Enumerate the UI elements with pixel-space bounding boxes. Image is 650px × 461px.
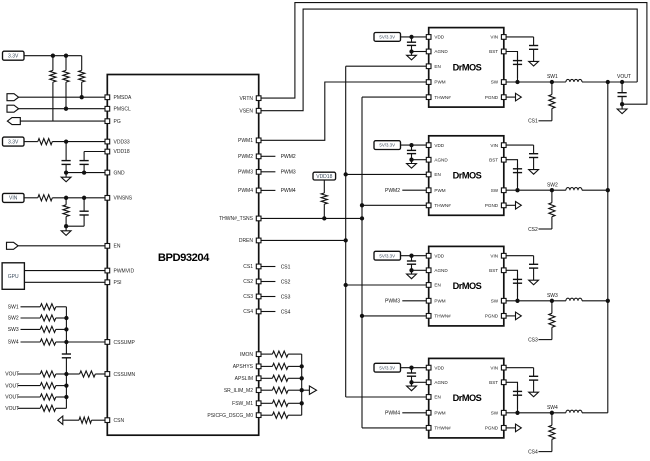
THWN bus vertical (all phases) [361,97,363,428]
arrow PGND phase 1 (off-sheet) [506,96,515,98]
pin BST DrMOS phase 3 [501,268,506,273]
pin CS3 of U1 [256,294,261,299]
ground symbol AGND phase 1 [411,52,413,56]
ground symbol VIN cap phase 1 [533,60,535,62]
wire THWN#_TSNS to bus [261,217,362,219]
svg-text:VDD: VDD [434,35,444,40]
svg-text:PWM3: PWM3 [281,170,296,176]
svg-text:AGND: AGND [434,380,448,385]
svg-text:SW: SW [491,188,499,193]
junction dot R6 bottom [64,224,68,228]
junction dot VOUT bus phase 3 [606,299,610,303]
pin VDD33 of U1 [105,139,110,144]
wire R6/C3 bottoms [66,225,84,227]
junction dot BST/SW phase 1 [515,80,519,84]
power net label 3.3V (pull-up rail) [3,51,25,60]
net label stub CS2 [261,281,275,283]
wire BST phase 3 [506,270,517,301]
config resistor bus vertical [301,354,303,415]
svg-text:CS4: CS4 [243,309,253,315]
svg-text:PGND: PGND [485,426,499,431]
pin PWM1 of U1 [256,138,261,143]
wire R13 to CSSUMN bus [56,396,67,398]
pin VIN DrMOS phase 4 [501,365,506,370]
pin PWM2 of U1 [256,154,261,159]
power net label 3.3V (VDD33 supply) [3,137,25,146]
pin EN of U1 [105,244,110,249]
capacitor C VDD phase 1 [411,37,413,42]
wire THWN# phase 2 [362,204,426,206]
wire SW4 to R10 [21,341,41,343]
resistor R15 series CSSUMN [66,373,79,375]
junction dot SW node phase 3 [550,299,554,303]
wire AGND phase 4 [412,381,427,383]
svg-text:SW1: SW1 [547,74,558,80]
svg-text:EN: EN [434,172,440,177]
pin SW DrMOS phase 2 [501,188,506,193]
svg-text:EN: EN [434,283,440,288]
svg-text:PWM: PWM [434,188,445,193]
resistor R4 series VDD33 [38,139,53,145]
svg-text:VIN: VIN [9,196,18,202]
pin PGND DrMOS phase 3 [501,314,506,319]
svg-text:THWN#: THWN# [434,426,451,431]
pin CSN of U1 [105,418,110,423]
wire PMSDA [19,96,105,98]
svg-text:CSN: CSN [114,418,125,424]
wire VIN phase 3 [506,255,533,257]
pin VDD DrMOS phase 4 [426,365,431,370]
junction dot VOUT cap bottom / VRTN [620,102,624,106]
pin VRTN of U1 [256,96,261,101]
svg-text:DrMOS: DrMOS [453,393,482,403]
ground symbol AGND phase 3 [411,270,413,274]
junction dot VDD33/C1 [64,139,68,143]
svg-text:PSICFG_DSCG_M0: PSICFG_DSCG_M0 [207,413,253,419]
pin APSHYS of U1 [256,364,261,369]
junction dot VDD cap phase 3 [409,254,413,258]
pin THWN# DrMOS phase 4 [426,426,431,431]
svg-text:SW4: SW4 [8,340,19,346]
wire VOUT to R13 [18,396,40,398]
svg-text:PWM3: PWM3 [385,299,400,305]
svg-text:VRTN: VRTN [239,96,253,102]
pin CSSUMP of U1 [105,340,110,345]
junction dot EN bus phase 3 [344,283,348,287]
capacitor C VIN phase 3 [533,256,535,265]
pin SW DrMOS phase 4 [501,410,506,415]
pin AGND DrMOS phase 2 [426,157,431,162]
wire BST phase 4 [506,382,517,413]
svg-text:SW4: SW4 [547,405,558,411]
svg-text:SR_ILIM_M2: SR_ILIM_M2 [224,388,253,394]
wire AGND phase 3 [412,269,427,271]
svg-text:5V/3.3V: 5V/3.3V [379,365,395,370]
junction dot VOUT cap top [620,80,624,84]
pin AGND DrMOS phase 4 [426,380,431,385]
svg-text:PG: PG [114,119,121,125]
wire CS3 stub phase 3 [539,339,552,341]
ground symbol (VINSNS filter) [65,226,67,231]
wire VRTN remote sense return [261,3,647,105]
junction dot VDD cap phase 2 [409,143,413,147]
pin IMON of U1 [256,352,261,357]
ground symbol (VDD33 decoupling) [65,173,67,178]
capacitor C VDD phase 3 [411,256,413,261]
power net label VIN [3,193,25,202]
svg-text:AGND: AGND [434,49,448,54]
svg-text:VOUT: VOUT [5,395,19,401]
svg-text:CS2: CS2 [528,227,538,233]
capacitor C BST phase 2 [517,164,519,169]
svg-text:VOUT: VOUT [5,406,19,412]
svg-text:PMSCL: PMSCL [114,107,131,113]
junction dot EN bus phase 2 [344,172,348,176]
junction dot SW node phase 1 [550,80,554,84]
junction dot BST/SW phase 3 [515,299,519,303]
resistor R CS sense phase 4 [551,413,553,426]
wire SW rail phase 1 [506,81,566,83]
pin PWM DrMOS phase 3 [426,298,431,303]
resistor R20 config [261,377,272,379]
pin BST DrMOS phase 2 [501,157,506,162]
CSSUMP bus vertical [65,307,67,352]
pin VSEN of U1 [256,108,261,113]
net label box VDD18 (THWN pull-up) [313,172,336,180]
capacitor C VIN phase 2 [533,145,535,154]
DrMOS U3 phase 2 body [429,136,504,216]
svg-text:APSLIM: APSLIM [235,376,253,382]
pin THWN# DrMOS phase 1 [426,95,431,100]
junction dot DREN/EN bus [344,238,348,242]
capacitor C VOUT output [621,82,623,93]
svg-text:BPD93204: BPD93204 [158,252,210,264]
controller IC U1 BPD93204 body [107,75,258,436]
wire VOUT to R14 [18,407,40,409]
svg-text:CS3: CS3 [281,294,291,300]
capacitor C BST phase 1 [517,56,519,61]
pin VIN DrMOS phase 2 [501,143,506,148]
svg-text:SW2: SW2 [547,182,558,188]
svg-text:CS1: CS1 [243,264,253,270]
pin EN DrMOS phase 1 [426,64,431,69]
resistor R16 series CSN [79,417,92,423]
pin CS1 of U1 [256,264,261,269]
resistor R7 SW1 sum [40,304,56,310]
junction dot SW node phase 2 [550,188,554,192]
svg-text:PWM: PWM [434,299,445,304]
svg-text:5V/3.3V: 5V/3.3V [379,35,395,40]
svg-text:PWM2: PWM2 [385,188,400,194]
resistor R18 config [261,353,272,355]
pin PGND DrMOS phase 4 [501,426,506,431]
svg-text:VIN: VIN [490,143,498,148]
wire 5V/3.3V to VDD phase 1 [400,36,426,38]
arrow PGND phase 4 (off-sheet) [506,427,515,429]
pin PWM DrMOS phase 1 [426,80,431,85]
pin CS4 of U1 [256,309,261,314]
svg-text:PGND: PGND [485,203,499,208]
capacitor C VDD phase 2 [411,145,413,150]
wire EN phase 2 [346,173,427,175]
svg-text:VOUT: VOUT [5,372,19,378]
resistor R13 VOUT sum [40,394,56,400]
svg-text:AGND: AGND [434,157,448,162]
pin PSI of U1 [105,280,110,285]
wire CS1 stub phase 1 [539,120,552,122]
junction dot BST/SW phase 2 [515,188,519,192]
port EN (input) [7,242,19,249]
wire AGND phase 1 [412,51,427,53]
pin VIN DrMOS phase 3 [501,253,506,258]
junction dot VOUT row1 bus [64,372,68,376]
junction dot VDD cap phase 4 [409,366,413,370]
pin SW DrMOS phase 3 [501,298,506,303]
wire pullup drop R3 [81,56,83,71]
svg-text:CS2: CS2 [281,279,291,285]
pin BST DrMOS phase 4 [501,380,506,385]
resistor R12 VOUT sum [40,383,56,389]
junction dot C2/GND wire [82,170,86,174]
svg-text:EN: EN [114,244,121,250]
wire 3.3V rail to pull-up resistors [24,55,82,57]
capacitor C1 VDD33 decoupling [65,142,67,161]
resistor R22 config [261,402,272,404]
inductor L2 phase 2 [566,188,582,191]
arrow CSN (off-sheet left) [58,416,63,424]
svg-text:GPU: GPU [8,274,19,280]
svg-text:SW: SW [491,411,499,416]
junction dot 3.3V/R2 [51,54,55,58]
wire SW rail phase 4 [506,412,566,414]
svg-text:CS4: CS4 [528,449,538,455]
wire GND pin [66,172,105,174]
junction dot APSHYS bus [300,364,304,368]
net label box 5V/3.3V phase 2 [374,141,401,150]
resistor R17 THWN pull-up [323,180,325,193]
wire PG [20,120,105,122]
wire R4 to VDD33 pin [52,141,105,143]
wire R5 to VINSNS pin [52,197,105,199]
wire PMSCL [19,108,105,110]
wire VOUT to R11 [18,373,40,375]
wire 5V/3.3V to VDD phase 2 [400,144,426,146]
svg-text:PMSDA: PMSDA [114,95,132,101]
pin PWMVID of U1 [105,268,110,273]
pin THWN#_TSNS of U1 [256,216,261,221]
wire SW2 to R8 [21,317,41,319]
pin DREN of U1 [256,238,261,243]
wire VIN phase 2 [506,144,533,146]
pin VDD DrMOS phase 1 [426,35,431,40]
arrow PGND phase 3 (off-sheet) [506,315,515,317]
svg-text:DrMOS: DrMOS [453,281,482,291]
pin PMSCL of U1 [105,106,110,111]
svg-text:PWM4: PWM4 [281,188,296,194]
svg-text:THWN#: THWN# [434,95,451,100]
svg-text:5V/3.3V: 5V/3.3V [379,143,395,148]
wire THWN# phase 4 [362,427,426,429]
junction dot VOUT row2 bus [64,383,68,387]
wire CS2 stub phase 2 [539,228,552,230]
svg-text:PWM4: PWM4 [238,188,253,194]
svg-text:PGND: PGND [485,95,499,100]
wire R8 to CSSUMP bus [56,317,67,319]
wire 5V/3.3V to VDD phase 4 [400,367,426,369]
wire R14 to CSSUMN bus [56,407,67,409]
arrow config bus (off-sheet right) [302,389,310,391]
junction dot AGND phase 1 [409,49,413,53]
wire EN [18,245,105,247]
resistor R11 VOUT sum [40,371,56,377]
net label box 5V/3.3V phase 4 [374,363,401,372]
svg-text:PWM3: PWM3 [238,170,253,176]
wire EN phase 3 [346,284,427,286]
wire R7 to CSSUMP bus [56,306,67,308]
svg-text:PWM1: PWM1 [238,138,253,144]
junction dot AGND phase 2 [409,158,413,162]
inductor L4 phase 4 [566,410,582,413]
pin PWM DrMOS phase 2 [426,188,431,193]
svg-text:PWM: PWM [434,411,445,416]
svg-text:VOUT: VOUT [617,74,631,80]
wire pullup drop R1 [52,56,54,71]
svg-text:CS3: CS3 [528,337,538,343]
pin THWN# DrMOS phase 2 [426,203,431,208]
junction dot VOUT row3 bus [64,395,68,399]
arrow PGND phase 2 (off-sheet) [506,204,515,206]
svg-text:CS4: CS4 [281,309,291,315]
ground symbol AGND phase 2 [411,160,413,164]
junction dot SW2 bus [64,316,68,320]
wire DREN to EN bus [261,239,346,241]
svg-text:DREN: DREN [239,238,254,244]
junction dot THWN bus phase 2 [360,203,364,207]
net label stub CS3 [261,296,275,298]
pin AGND DrMOS phase 3 [426,268,431,273]
wire VIN phase 1 [506,36,533,38]
capacitor C VIN phase 4 [533,368,535,377]
resistor R9 SW3 sum [40,326,56,332]
svg-text:DrMOS: DrMOS [453,171,482,181]
svg-text:AGND: AGND [434,268,448,273]
junction dot SR_ILIM bus [300,388,304,392]
wire SW rail phase 3 [506,300,566,302]
ground symbol AGND phase 4 [411,382,413,386]
wire THWN# phase 1 [362,96,426,98]
pin PWM4 of U1 [256,188,261,193]
wire R10 to CSSUMP bus [56,341,67,343]
junction dot FSW bus [300,401,304,405]
resistor R21 config [261,389,272,391]
wire 5V/3.3V to VDD phase 3 [400,255,426,257]
svg-text:PWM4: PWM4 [385,411,400,417]
svg-text:VDD: VDD [434,143,444,148]
DrMOS U5 phase 4 body [429,358,504,438]
svg-text:PWM2: PWM2 [281,154,296,160]
pin PSICFG_DSCG_M0 of U1 [256,413,261,418]
svg-text:PSI: PSI [114,280,122,286]
wire CS4 stub phase 4 [539,451,552,453]
svg-text:BST: BST [489,49,498,54]
pin PGND DrMOS phase 2 [501,203,506,208]
pin VINSNS of U1 [105,196,110,201]
svg-text:BST: BST [489,157,498,162]
svg-text:3.3V: 3.3V [8,54,19,60]
svg-text:SW3: SW3 [547,293,558,299]
wire PWM1 to phase 1 [261,82,426,140]
junction dot VDD cap phase 1 [409,35,413,39]
svg-text:EN: EN [434,395,440,400]
svg-text:VIN: VIN [490,253,498,258]
svg-text:VDD: VDD [434,253,444,258]
EN bus vertical (DREN to all phases) [345,66,347,397]
svg-text:SW3: SW3 [8,327,19,333]
svg-text:CS1: CS1 [281,264,291,270]
wire R16 to CSN pin [92,419,105,421]
wire VIN phase 4 [506,367,533,369]
resistor R14 VOUT sum [40,405,56,411]
wire SW rail phase 2 [506,189,566,191]
capacitor C BST phase 3 [517,274,519,279]
inductor L3 phase 3 [566,298,582,301]
wire R9 to CSSUMP bus [56,328,67,330]
wire SW1 to R7 [21,306,41,308]
svg-text:APSHYS: APSHYS [233,364,254,370]
pin AGND DrMOS phase 1 [426,49,431,54]
wire pullup drop R2 [65,56,67,71]
wire EN phase 1 [346,65,427,67]
net label stub CS1 [261,266,275,268]
wire VOUT to R12 [18,385,40,387]
wire SW3 to R9 [21,328,41,330]
junction dot THWN bus / IC [360,216,364,220]
wire GPU to PWMVID [24,270,104,272]
capacitor C VIN phase 1 [533,37,535,46]
pin GND of U1 [105,170,110,175]
svg-text:CSSUMP: CSSUMP [114,340,136,346]
wire R12 to CSSUMN bus [56,385,67,387]
DrMOS U4 phase 3 body [429,246,504,326]
junction dot SW4/CSSUMP [64,340,68,344]
svg-text:VDD33: VDD33 [114,139,130,145]
ground symbol VIN cap phase 4 [533,391,535,393]
svg-text:CS2: CS2 [243,279,253,285]
svg-text:VOUT: VOUT [5,383,19,389]
wire EN phase 4 [346,396,427,398]
resistor R3 pull-up PMSDA [79,70,85,82]
ground symbol VIN cap phase 3 [533,279,535,281]
svg-text:SW1: SW1 [8,305,19,311]
svg-text:CSSUMN: CSSUMN [114,372,136,378]
svg-text:PWM: PWM [434,80,445,85]
wire VDD18 pin to C2 [84,151,105,153]
wire VIN to R5 [24,197,38,199]
pin PWM3 of U1 [256,170,261,175]
svg-text:BST: BST [489,268,498,273]
net label box 5V/3.3V phase 1 [374,33,401,42]
resistor R CS sense phase 1 [551,82,553,95]
port PMSCL (input) [7,105,19,112]
junction dot VOUT bus phase 1 [606,80,610,84]
VOUT bus vertical (all phase outputs) [607,82,609,413]
block GPU (VID source) [2,263,24,290]
resistor R CS sense phase 2 [551,190,553,203]
wire CSN arrow to R16 [63,419,79,421]
capacitor C4 CSSUM filter [65,352,67,354]
wire VSEN remote sense [261,9,637,111]
resistor R CS sense phase 3 [551,301,553,314]
